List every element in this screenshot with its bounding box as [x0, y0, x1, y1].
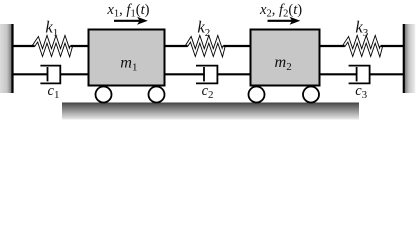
damper c3 piston — [356, 67, 358, 81]
damper c1 piston — [47, 67, 49, 81]
damper c3 rod right — [370, 73, 403, 75]
mass m1 — [89, 30, 165, 86]
arrow x1 — [114, 17, 148, 25]
spring k2 — [166, 39, 250, 52]
damper c3 rod left — [321, 73, 357, 75]
damper c2 rod left — [166, 73, 205, 75]
damper c2 piston — [203, 67, 205, 81]
damper c1 rod right — [60, 73, 88, 75]
spring k3 — [321, 39, 404, 52]
ground — [62, 103, 359, 120]
spring k1 — [14, 39, 89, 52]
wheel 2 of m2 — [303, 87, 319, 103]
svg-text:x2, f2(t): x2, f2(t) — [259, 2, 302, 20]
damper c2 cylinder — [196, 66, 217, 84]
svg-text:x1, f1(t): x1, f1(t) — [106, 2, 149, 20]
wheel 2 of m1 — [149, 87, 165, 103]
wall left — [0, 24, 13, 93]
wheel 1 of m2 — [249, 87, 265, 103]
damper c2 rod right — [217, 73, 249, 75]
damper c3 cylinder — [349, 66, 370, 84]
arrow x2 — [268, 17, 301, 25]
wall right — [404, 24, 416, 93]
damper c1 cylinder — [40, 66, 60, 84]
mass m2 — [251, 30, 320, 86]
damper c1 rod left — [14, 73, 48, 75]
wheel 1 of m1 — [96, 87, 112, 103]
